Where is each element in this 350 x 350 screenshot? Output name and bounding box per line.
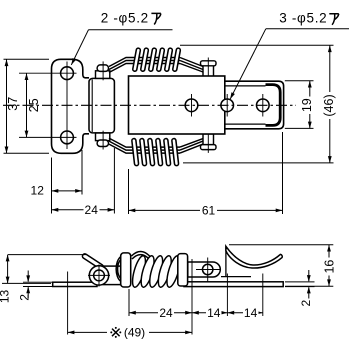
dim 61 ext left xyxy=(128,169,130,214)
svg-text:3 -φ5.2: 3 -φ5.2 xyxy=(279,11,327,26)
dim 19 ext bottom xyxy=(285,127,314,129)
dim 37 ext bottom xyxy=(4,152,50,154)
dim 25 arrows xyxy=(25,73,29,80)
top trunnion tab xyxy=(96,71,110,79)
mounting plate outline xyxy=(52,59,90,153)
body hole 2 (phi5.2) xyxy=(221,99,234,112)
side lever neck xyxy=(103,266,121,285)
dim 16 arrows xyxy=(327,245,331,252)
dim 13 arrows xyxy=(6,255,10,262)
dim 13 ext top xyxy=(8,254,86,256)
label 3-phi5.2 katakana a xyxy=(329,14,339,25)
svg-text:61: 61 xyxy=(202,204,216,218)
dim 2L arrow top xyxy=(27,271,29,282)
side knuckle pivot hole xyxy=(94,270,105,281)
dim 37 arrows xyxy=(5,59,9,66)
body hole 3 (phi5.2) xyxy=(257,99,270,112)
dim 14a textbg xyxy=(206,307,222,319)
dim 24s textbg xyxy=(158,307,174,319)
top anchor tab stem xyxy=(203,64,214,77)
svg-text:2: 2 xyxy=(299,300,313,307)
dim 12 arrows xyxy=(52,189,59,193)
bottom trunnion wire band xyxy=(97,140,108,147)
side spring end disk xyxy=(178,254,188,286)
side spring end wire xyxy=(132,251,151,259)
dim 16 ext top xyxy=(229,244,333,246)
body hole 3 vertical centerline xyxy=(262,94,264,117)
dim 12 line xyxy=(52,190,83,192)
svg-text:24: 24 xyxy=(159,306,173,320)
bottom anchor tab cap xyxy=(201,145,217,150)
dim 24s ext left xyxy=(128,289,130,316)
loop bail inner edges xyxy=(218,85,266,87)
side spring wire wrap xyxy=(116,257,121,282)
dim 14b line xyxy=(227,312,262,314)
dim 2R arrow bottom xyxy=(308,287,310,298)
side knuckle centerlines xyxy=(88,274,110,276)
hinge link inner edge xyxy=(91,79,93,132)
dim 46 textbg xyxy=(324,92,337,119)
dim 46 line xyxy=(329,45,331,163)
dim 49 arrows xyxy=(68,331,75,335)
dim 16 line xyxy=(328,245,330,287)
dim 2R ext top xyxy=(285,281,315,283)
dim 24 textbg xyxy=(84,204,100,216)
dim 61 textbg xyxy=(200,205,217,217)
dim 37 ext top xyxy=(4,58,50,60)
side ext x228 xyxy=(226,274,228,317)
svg-text:2: 2 xyxy=(17,294,31,301)
bottom trunnion centerline tick xyxy=(102,131,104,150)
dim 14a arrows xyxy=(192,311,199,315)
dim 24s arrows xyxy=(129,311,136,315)
label 2-phi5.2 underline xyxy=(89,29,173,31)
dim 2L ext top xyxy=(23,281,52,283)
svg-text:13: 13 xyxy=(0,290,11,304)
dim 49 textbg xyxy=(107,327,149,339)
dim 49 refmark xyxy=(110,327,121,338)
svg-text:2 -φ5.2: 2 -φ5.2 xyxy=(101,10,149,25)
bottom anchor tab stem xyxy=(203,134,214,147)
dim 16 textbg xyxy=(323,258,337,276)
dim 24s line xyxy=(129,312,192,314)
label 3-phi5.2 underline xyxy=(266,28,349,30)
label 2-phi5.2 leader xyxy=(71,30,88,65)
side link bar xyxy=(188,262,221,277)
dim 24 line xyxy=(52,209,115,211)
bottom anchor centerline tick xyxy=(207,131,209,153)
dim 61 line xyxy=(129,209,283,211)
dim 46 arrows xyxy=(328,45,332,52)
hole A centerline / ext xyxy=(19,72,77,74)
dim 12 ext left xyxy=(51,158,53,214)
side base strip xyxy=(184,282,283,287)
side hinge link bar xyxy=(121,253,131,287)
dim 61 ext right xyxy=(282,132,284,214)
side knuckle xyxy=(89,266,108,285)
dim 46 ext top xyxy=(180,44,334,46)
dim 61 arrows xyxy=(129,209,136,213)
dim 19 ext top xyxy=(285,80,314,82)
dim 19 line xyxy=(309,81,311,129)
dim 14a line xyxy=(192,312,227,314)
body hole 1 (phi5.2) xyxy=(185,99,198,112)
loop bail wire end band xyxy=(266,85,281,126)
top trunnion wire band xyxy=(97,65,108,72)
top spring wire strands xyxy=(109,58,180,67)
svg-text:37: 37 xyxy=(6,97,20,111)
svg-text:(49): (49) xyxy=(124,326,145,340)
main horizontal centerline xyxy=(3,104,296,106)
dim 24 arrows xyxy=(52,208,59,212)
svg-text:12: 12 xyxy=(31,183,45,197)
top spring coil xyxy=(135,50,139,69)
side lever hole centerline xyxy=(67,272,69,335)
svg-text:19: 19 xyxy=(300,98,314,112)
hinge link plate xyxy=(89,78,114,132)
dim 14b textbg xyxy=(243,307,259,319)
top anchor tab cap xyxy=(201,61,217,66)
dim 2R arrow top xyxy=(308,270,310,281)
side ext x193 xyxy=(191,259,193,335)
dim 16 ext bottom xyxy=(285,285,333,287)
dim 19 textbg xyxy=(304,97,317,115)
catch plate left edge xyxy=(225,246,227,276)
catch hook band xyxy=(226,246,282,268)
body case xyxy=(129,76,225,134)
svg-text:16: 16 xyxy=(322,260,336,274)
top anchor centerline tick xyxy=(207,58,209,80)
plate hole B (phi5.2) xyxy=(61,131,74,144)
label 2-phi5.2 katakana a xyxy=(151,13,161,24)
side spring hook tab xyxy=(85,256,101,267)
dim 2L arrow bottom xyxy=(27,287,29,298)
svg-text:24: 24 xyxy=(85,203,99,217)
side link bar hole centerlines xyxy=(196,269,220,271)
dim 14b arrows xyxy=(227,311,234,315)
label 3-phi5.2 leader xyxy=(230,29,266,99)
top trunnion centerline tick xyxy=(102,61,104,80)
dim 13 ext bottom xyxy=(2,282,51,284)
plate hole A (phi5.2) xyxy=(61,67,74,80)
svg-text:14: 14 xyxy=(244,306,258,320)
catch plate bottom xyxy=(221,276,251,278)
bottom spring wire strands xyxy=(109,144,180,153)
dim 13 line xyxy=(7,255,9,284)
dim 49 line xyxy=(68,331,192,333)
dim 12 ext right xyxy=(81,150,83,195)
bottom trunnion tab xyxy=(96,133,110,141)
dim 19 arrows xyxy=(308,81,312,88)
hole B centerline / ext xyxy=(19,136,77,138)
side spring coil xyxy=(130,255,148,289)
bottom spring coil xyxy=(134,141,137,164)
dim 2R ext bottom xyxy=(285,286,315,288)
dim 46 ext bottom xyxy=(183,162,334,164)
body hole 2 vertical centerline xyxy=(226,94,228,117)
side lever strip xyxy=(53,282,97,286)
dim 2L ext bottom xyxy=(23,286,52,288)
svg-text:(46): (46) xyxy=(322,94,336,116)
body hole 1 vertical centerline xyxy=(191,94,193,117)
dim 25 line xyxy=(26,73,28,137)
svg-text:14: 14 xyxy=(207,306,221,320)
dim 37 line xyxy=(6,59,8,153)
loop bail outer xyxy=(215,81,284,129)
plate holes centerline vertical xyxy=(66,62,68,150)
side ext x263 xyxy=(262,274,264,317)
side link bar hole xyxy=(203,264,213,274)
dim 24 ext right xyxy=(113,148,115,214)
